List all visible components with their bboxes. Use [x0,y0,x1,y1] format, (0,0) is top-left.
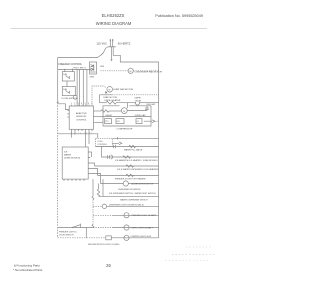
svg-text:(SOME MODELS): (SOME MODELS) [64,158,81,160]
wire evap fan feed dashed [92,86,104,104]
svg-text:Publication No. 5995525049: Publication No. 5995525049 [155,14,203,18]
wire light row 9 right [112,227,159,229]
wire riser [98,184,100,190]
freezer control switch box S1 [62,72,74,81]
refrigerator light LP3 [124,225,129,230]
wire bottom row 10 [111,237,158,239]
svg-text:115 VAC: 115 VAC [97,41,107,45]
wire arrow from cold control [112,142,122,145]
defrost thermostat TS1 [135,103,139,105]
wire bottom row 10 dashed [58,237,106,239]
wire run winding row [95,110,101,112]
freezer light lamp [73,95,77,99]
wire line to right bus [113,47,158,62]
svg-text:WIRING DIAGRAM: WIRING DIAGRAM [96,21,132,26]
wire riser a [76,69,78,106]
svg-text:FREEZER DOOR PORT HEATER: FREEZER DOOR PORT HEATER [115,178,146,181]
wire pin jog 2 [90,163,94,166]
svg-text:WATER FILL VALVE: WATER FILL VALVE [124,149,143,152]
wire defrost terminal row [100,94,113,96]
wire [72,69,74,71]
wire auger to bus [128,183,158,185]
module left pin ticks [68,111,70,117]
compressor motor M3 [121,108,127,114]
svg-text:EVAP. MOTOR: EVAP. MOTOR [104,96,118,99]
wire dispenser feed row [99,195,159,197]
svg-text:FREEZER LIGHT 40 WATT: FREEZER LIGHT 40 WATT [132,214,157,217]
wire riser right [102,179,104,196]
svg-text:60 HERTZ: 60 HERTZ [118,41,131,45]
svg-text:ELHS262ZS: ELHS262ZS [102,13,125,18]
wire neutral to left bus [58,47,108,57]
svg-text:N.C.: N.C. [63,74,67,76]
freezer light LP2 [124,213,129,218]
node dot [72,69,73,70]
water valve solenoid L1 zigzag [129,145,135,147]
svg-text:CONTROL: CONTROL [97,144,108,146]
wire cold control top right [112,137,158,139]
mold heater R3 zigzag [123,156,131,158]
svg-text:DEFROST: DEFROST [76,116,87,118]
wire auger row [101,183,124,185]
module right pin ticks [94,111,96,122]
wire defrost feed corner [99,95,101,103]
svg-text:N.O.: N.O. [63,89,67,91]
wire module pin down [74,131,76,134]
tick [117,137,119,140]
svg-text:ICE DISPENSER SWITCH - WATER D: ICE DISPENSER SWITCH - WATER DISP. SWITC… [109,192,156,195]
wire light row 8 [112,214,159,216]
wire light row 8 dashed [93,214,112,216]
power plug P1 [108,39,116,47]
node dot [64,69,65,70]
scanner noise dots row1 [186,246,212,248]
svg-text:FREEZER CONTROL: FREEZER CONTROL [59,63,83,66]
vertical resistor R6 [97,189,99,196]
wire [116,102,135,104]
wire dashed to bus [112,94,159,96]
connector block J1 [90,62,97,74]
switch pivot dot [72,227,73,228]
wire line A from left bus [58,134,98,139]
svg-text:DISPENSER SOLENOID: DISPENSER SOLENOID [118,189,141,191]
switch contacts S2 [66,89,70,94]
door switch box S2 [62,86,75,95]
plug contacts [114,145,116,148]
module top pin ticks [72,105,93,106]
wire heater row 3 [95,165,159,167]
svg-text:FREEZER LIGHT &: FREEZER LIGHT & [59,232,77,234]
wire module pin down b [71,131,73,138]
wire light row 7 dashed [93,205,102,207]
node dot [139,102,140,103]
header rule [11,28,208,30]
wire heater tap down [127,103,129,108]
svg-text:AUGER DRIVE MOTOR: AUGER DRIVE MOTOR [132,182,154,185]
wire light row 7 [107,205,159,207]
node dot [135,102,136,103]
left bus wire upper [57,58,59,100]
svg-text:EVAP. FAN MOTOR: EVAP. FAN MOTOR [114,88,134,91]
svg-text:REFR. LIGHT 40 WATT: REFR. LIGHT 40 WATT [132,226,154,229]
wire riser left rows [92,179,94,196]
svg-text:MAKER: MAKER [64,154,72,157]
scanner noise dots row3 [165,260,208,262]
svg-text:GRN: GRN [90,77,95,79]
wire mold heater row [102,147,159,158]
light switch S3 [73,224,81,228]
ground wire with arrow [110,47,112,62]
wire to condenser fan dashed [101,70,129,72]
wire defrost row left [100,102,107,104]
node dot [74,133,75,134]
svg-text:RUN CAP.: RUN CAP. [147,103,156,106]
crisper light LP4 [124,235,129,240]
wire [66,81,68,86]
wire heater row 4 [98,174,159,176]
run capacitor C1 [145,106,149,111]
left bus wire lower dashed [57,100,59,238]
svg-text:CONTROL: CONTROL [76,119,87,121]
wire module to compressor box [95,116,103,118]
start relay box K1 [105,119,112,124]
module bottom pin ticks [72,129,93,131]
svg-text:1 2 3 4 5 6 7: 1 2 3 4 5 6 7 [71,103,93,105]
svg-text:FRZ LT REF LT: FRZ LT REF LT [74,68,87,70]
svg-text:§ Functioning Parts: § Functioning Parts [14,264,40,268]
wire to bus dashed [156,120,159,122]
svg-text:DEFR.: DEFR. [135,98,142,100]
resistor R5 zigzag [126,174,133,176]
wire pin jog 1 [90,152,91,157]
cold control box dashed [96,138,113,146]
svg-text:* Non-Illustrated Parts: * Non-Illustrated Parts [13,268,43,272]
wire overload arrow [144,120,155,123]
wire riser b [79,69,81,106]
wire control feed [58,68,91,70]
scanner noise dots row2 [172,254,215,256]
auger motor M4 [123,181,128,186]
connector squiggle top [92,196,94,199]
compressor box divider [103,116,151,118]
dispenser light LP1 [102,204,106,208]
svg-text:WATER DISPENSER SWITCH: WATER DISPENSER SWITCH [120,198,148,201]
wire module pin down c [85,131,87,147]
svg-text:CRISPER LIGHT 40 W: CRISPER LIGHT 40 W [131,236,152,238]
wire module pin down d [88,131,90,144]
wire riser c [82,69,84,106]
svg-text:COMPRESSOR: COMPRESSOR [117,128,133,130]
wire light row 9 dashed [93,227,112,229]
svg-text:26: 26 [106,263,111,268]
wire pin jog 3 [90,169,97,176]
wire link rows [85,228,87,238]
condenser fan motor M1 [128,68,133,73]
wire motor to right bus [133,70,158,72]
svg-text:DISPENSER LIGHT (SOME MODELS): DISPENSER LIGHT (SOME MODELS) [109,205,144,207]
svg-text:GRN: GRN [100,66,105,68]
svg-text:ADAPTIVE: ADAPTIVE [76,112,87,115]
icemaker right pin ticks [88,152,90,174]
resistor R4 zigzag [126,165,133,167]
right bus wire [158,62,160,238]
wire riser dashed [92,200,94,225]
wire riser d [86,69,88,106]
wire [127,110,147,112]
wire to bus [140,102,159,104]
connector squiggle bottom [92,225,94,228]
svg-text:ICE MAKER MOLD HEATER - SOME M: ICE MAKER MOLD HEATER - SOME MODELS [115,159,158,162]
switch contacts S1 [66,74,70,79]
svg-text:OL: OL [137,121,139,123]
compressor shell box [103,106,151,126]
wire [64,69,66,71]
wire [109,110,122,112]
svg-text:COLD: COLD [97,141,103,143]
icemaker box [62,147,88,179]
icemaker bottom pin ticks [64,179,84,181]
resistor R2 zigzag [101,110,109,112]
defrost heater R1 zigzag [106,101,116,104]
wire arrow into evap fan [104,86,107,94]
evaporator fan motor M2 [107,87,113,93]
wire bus to module [58,104,69,110]
wire light row 9 [58,227,93,229]
compressor windings box [116,119,124,124]
svg-text:SHOWN WITH DOOR CLOSED: SHOWN WITH DOOR CLOSED [88,244,120,246]
lamp receptacle box [106,236,112,240]
wire water valve row [96,146,159,148]
svg-text:DOOR SWITCH: DOOR SWITCH [59,235,74,237]
connector pair [108,155,113,159]
svg-text:ICE & WATER DISPENSER DOOR HEA: ICE & WATER DISPENSER DOOR HEATERS [117,168,159,171]
wire module to relay [95,121,103,123]
wire pin jog 4 [90,174,100,184]
adaptive defrost control module U1 [69,106,93,129]
overload protector box OL1 [136,119,142,124]
